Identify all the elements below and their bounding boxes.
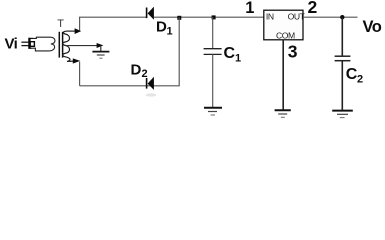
svg-text:OUT: OUT — [288, 11, 306, 21]
ground (C1) — [204, 108, 222, 115]
wire top rail to C1 — [212, 17, 214, 48]
regulator U1 box — [264, 10, 303, 40]
svg-text:IN: IN — [266, 11, 274, 21]
junction C1 on top rail — [212, 15, 216, 19]
svg-text:T: T — [57, 18, 64, 30]
junction C2 on output wire — [340, 15, 344, 19]
label Vo — [363, 18, 382, 36]
center tap wire — [66, 45, 99, 47]
wire output rail to C2 — [341, 17, 343, 55]
svg-text:Vo: Vo — [363, 18, 382, 36]
regulator pin name OUT — [288, 11, 306, 21]
secondary top lead arrow — [75, 28, 82, 34]
faint print artifact — [146, 93, 157, 96]
regulator pin name COM — [276, 31, 295, 41]
AC plug prong lower — [21, 45, 29, 47]
svg-text:C: C — [346, 66, 358, 83]
label D1 — [156, 19, 173, 38]
wire C1 to ground — [212, 54, 214, 107]
wire from secondary top up to top rail — [80, 17, 146, 30]
capacitor C2 — [335, 56, 351, 61]
ground (C2) — [332, 111, 353, 118]
svg-text:1: 1 — [235, 52, 241, 64]
AC plug prong upper — [21, 41, 29, 43]
svg-text:1: 1 — [167, 26, 173, 38]
label Vi — [5, 36, 18, 53]
wire OUT to Vo — [303, 16, 358, 18]
svg-text:2: 2 — [357, 74, 363, 86]
capacitor C1 — [204, 49, 222, 55]
diode D2 — [147, 77, 154, 90]
svg-text:D: D — [156, 19, 167, 36]
ground (center tap) — [92, 52, 109, 59]
pin number 2 — [308, 0, 318, 17]
secondary bottom lead arrow — [73, 58, 80, 63]
svg-text:C: C — [224, 45, 236, 62]
svg-text:D: D — [131, 61, 142, 78]
svg-text:2: 2 — [142, 68, 148, 80]
wire vertical D2 branch — [80, 17, 180, 86]
svg-text:1: 1 — [245, 0, 254, 17]
diode D1 — [147, 7, 154, 20]
wire secondary bottom lead down — [79, 62, 81, 86]
pin number 1 — [245, 0, 254, 17]
AC plug body — [29, 38, 35, 49]
primary winding loop of transformer — [33, 37, 55, 51]
junction where D2 branch joins top rail — [177, 16, 181, 20]
label D2 — [131, 61, 148, 80]
wire pin3 to ground — [282, 40, 284, 110]
wire C2 to ground — [341, 61, 343, 110]
svg-text:3: 3 — [288, 41, 298, 61]
secondary winding — [63, 31, 70, 61]
secondary bottom lead wire — [67, 60, 75, 62]
svg-text:Vi: Vi — [5, 36, 18, 53]
pin number 3 — [288, 41, 298, 61]
svg-text:COM: COM — [276, 31, 295, 41]
label C2 — [346, 66, 363, 86]
regulator pin name IN — [266, 11, 274, 21]
wire center tap to ground — [100, 46, 102, 52]
label T — [57, 18, 64, 30]
wire D1 to regulator IN — [154, 16, 264, 18]
center tap arrow — [97, 43, 104, 48]
svg-text:2: 2 — [308, 0, 318, 17]
ground (pin 3) — [275, 110, 291, 117]
transformer T core — [59, 32, 62, 58]
label C1 — [224, 45, 242, 64]
secondary top lead wire — [67, 30, 77, 32]
